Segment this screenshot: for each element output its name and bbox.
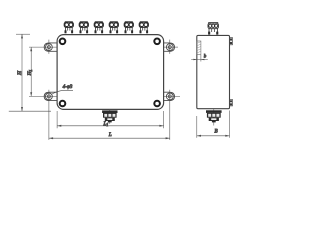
svg-text:B: B xyxy=(215,128,218,134)
dimension H (overall height, left outer) xyxy=(9,34,51,111)
dimension label B xyxy=(215,128,218,134)
side-view ear tab (hatched, left) xyxy=(197,41,201,55)
dimension label H xyxy=(17,70,23,76)
side-view outline xyxy=(197,35,230,108)
side-view ear tab (right bottom) xyxy=(230,100,233,106)
hole callout 4-phi3 leader xyxy=(52,90,73,94)
svg-text:4-φ3: 4-φ3 xyxy=(63,83,73,90)
output connector J6 xyxy=(139,22,148,34)
dimension label H1 xyxy=(27,70,33,77)
dimension label L xyxy=(108,132,112,138)
dimension H1 (ear hole spacing, left inner) xyxy=(29,47,57,96)
dimension label L1 xyxy=(103,121,109,127)
dimension B (depth, bottom of side view) xyxy=(197,111,230,138)
side-view bottom input connector xyxy=(206,109,222,126)
lid screw hole bottom-right xyxy=(154,101,160,107)
lid screw hole top-right xyxy=(154,39,160,45)
dimension L1 (box length, bottom inner) xyxy=(57,111,164,128)
side-view ear tab (right top) xyxy=(230,38,233,45)
mounting ear bottom-left xyxy=(44,90,57,140)
svg-text:1: 1 xyxy=(107,123,109,127)
output connector J1 xyxy=(64,22,73,34)
mounting ear top-left xyxy=(44,40,57,54)
output connector J4 xyxy=(109,22,118,34)
output connector J3 xyxy=(94,22,103,34)
output connector J5 xyxy=(124,22,133,34)
dimension L (ear spacing, bottom outer) xyxy=(49,137,170,139)
svg-text:b: b xyxy=(204,55,207,60)
svg-text:1: 1 xyxy=(29,70,33,72)
dimension label b xyxy=(204,55,207,60)
mounting ear top-right xyxy=(163,40,178,54)
dimension b (ear thickness, side view) xyxy=(191,55,208,62)
svg-text:L: L xyxy=(108,132,112,138)
mounting ear bottom-right xyxy=(163,90,180,140)
lid screw hole bottom-left xyxy=(60,101,66,107)
enclosure front-view outline xyxy=(57,35,164,110)
output connector J2 xyxy=(79,22,88,34)
input connector front view bottom xyxy=(102,110,117,125)
lid screw hole top-left xyxy=(60,39,66,45)
hole callout label 4-phi3 xyxy=(63,83,73,90)
side-view top connector xyxy=(208,23,218,35)
